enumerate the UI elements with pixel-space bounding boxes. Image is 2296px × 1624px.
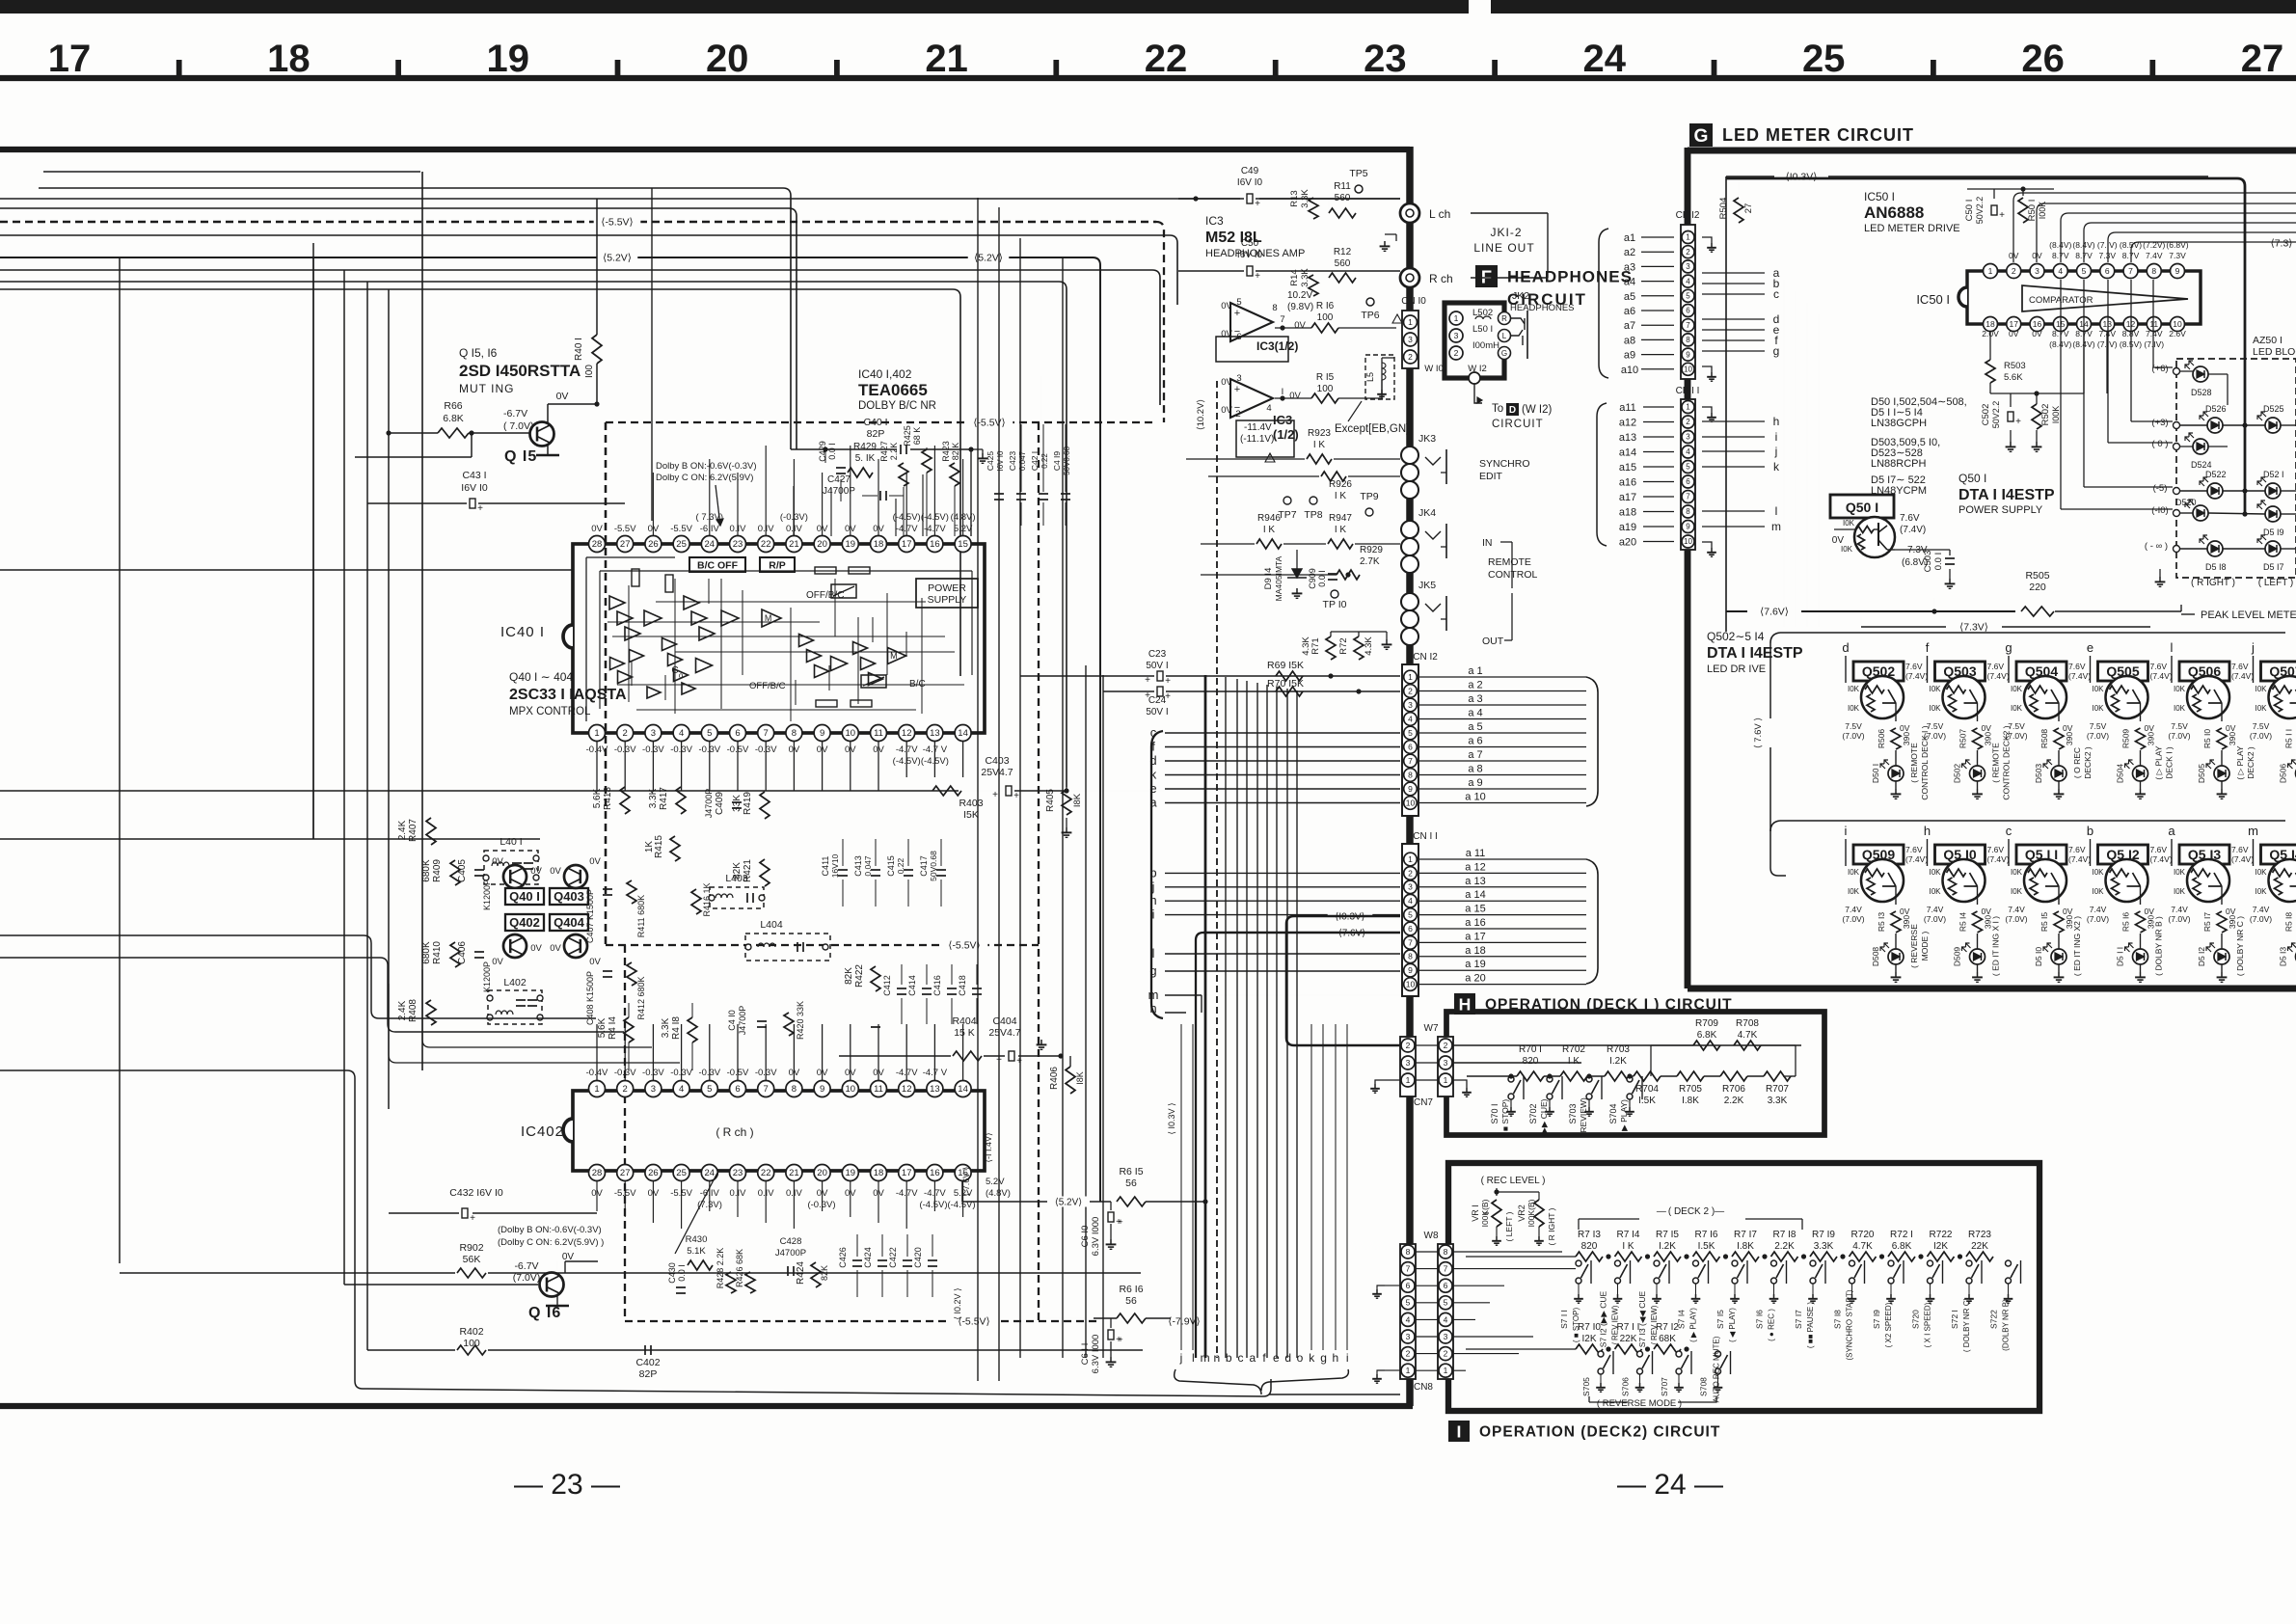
svg-text:a18: a18 (1619, 507, 1636, 519)
svg-text:I0K: I0K (2092, 685, 2104, 693)
svg-text:R7 I9: R7 I9 (1812, 1230, 1835, 1240)
svg-text:I0K: I0K (2092, 868, 2104, 877)
svg-text:0V: 0V (2145, 723, 2155, 733)
svg-text:R508: R508 (2039, 729, 2049, 749)
svg-text:Dolby B ON:-0.6V(-0.3V): Dolby B ON:-0.6V(-0.3V) (656, 461, 757, 472)
svg-text:b: b (2087, 824, 2093, 838)
svg-text:0V: 0V (1900, 907, 1910, 916)
svg-text:S7 I6: S7 I6 (1755, 1310, 1765, 1329)
svg-text:( - ∞ ): ( - ∞ ) (2145, 541, 2168, 552)
svg-text:F: F (1481, 266, 1492, 286)
svg-text:1: 1 (1406, 1366, 1411, 1375)
svg-text:R505: R505 (2025, 570, 2049, 582)
svg-text:DTA I I4ESTP: DTA I I4ESTP (1707, 645, 1803, 662)
svg-text:J4700P: J4700P (775, 1248, 806, 1259)
svg-text:5: 5 (2082, 266, 2087, 276)
svg-text:R70 I5K: R70 I5K (1267, 678, 1304, 690)
svg-text:(-I0): (-I0) (2151, 505, 2168, 516)
svg-text:2: 2 (1406, 1041, 1411, 1050)
svg-text:0V: 0V (589, 957, 601, 967)
svg-text:R708: R708 (1736, 1018, 1759, 1029)
svg-text:I0K: I0K (2174, 887, 2186, 896)
svg-text:a10: a10 (1621, 365, 1638, 376)
svg-text:7.5V: 7.5V (1927, 721, 1944, 731)
svg-text:VR I: VR I (1471, 1204, 1480, 1222)
svg-text:(7.0V): (7.0V) (513, 1272, 541, 1284)
svg-text:C422: C422 (888, 1247, 898, 1268)
svg-text:I K: I K (1335, 491, 1347, 501)
svg-text:I0K: I0K (1848, 887, 1860, 896)
svg-text:⟨-5.5V⟩: ⟨-5.5V⟩ (948, 940, 980, 952)
svg-text:I.8K: I.8K (1682, 1096, 1699, 1106)
svg-text:7.3V: 7.3V (2169, 251, 2186, 260)
svg-text:C502: C502 (1981, 404, 1991, 426)
svg-text:7: 7 (1280, 314, 1284, 325)
svg-text:⟨ I0.2V ⟩: ⟨ I0.2V ⟩ (953, 1287, 962, 1319)
svg-text:6: 6 (1686, 477, 1690, 486)
svg-text:I00: I00 (584, 365, 595, 378)
svg-text:7.4V: 7.4V (2008, 905, 2025, 914)
svg-text:S702: S702 (1528, 1103, 1538, 1123)
svg-text:Q50 I: Q50 I (1958, 472, 1986, 485)
svg-text:LED DR IVE: LED DR IVE (1707, 663, 1766, 675)
svg-text:(-0.3V): (-0.3V) (807, 1200, 835, 1210)
svg-text:0.0 I: 0.0 I (827, 443, 837, 460)
svg-text:R66: R66 (444, 400, 462, 412)
svg-text:0V: 0V (1289, 391, 1301, 401)
svg-text:0.IV: 0.IV (758, 524, 775, 534)
svg-text:SUPPLY: SUPPLY (928, 594, 967, 606)
svg-text:26: 26 (648, 539, 659, 550)
svg-text:DECK2 ): DECK2 ) (2083, 746, 2093, 779)
svg-text:R11: R11 (1334, 181, 1351, 192)
svg-text:a9: a9 (1624, 350, 1635, 362)
svg-text:L404: L404 (760, 919, 783, 931)
svg-text:1: 1 (1408, 854, 1413, 864)
svg-text:D509: D509 (1953, 947, 1962, 967)
svg-text:8: 8 (1408, 770, 1413, 779)
svg-text:2: 2 (1686, 248, 1690, 257)
svg-text:3: 3 (1444, 1058, 1448, 1068)
svg-text:6: 6 (1408, 924, 1413, 934)
svg-text:R420 33K: R420 33K (796, 1001, 805, 1040)
svg-text:R ch: R ch (1429, 272, 1453, 285)
svg-text:25: 25 (676, 539, 687, 550)
svg-text:(7.4V): (7.4V) (1987, 671, 2010, 681)
svg-text:( R ch ): ( R ch ) (716, 1125, 753, 1139)
svg-text:+: + (1999, 210, 2005, 221)
svg-text:0V: 0V (2032, 251, 2042, 260)
svg-text:56: 56 (1125, 1295, 1137, 1307)
svg-text:R5 I6: R5 I6 (2121, 912, 2131, 933)
svg-text:S7 I I: S7 I I (1559, 1310, 1569, 1329)
svg-text:3: 3 (1408, 700, 1413, 710)
svg-text:0V: 0V (530, 866, 542, 877)
svg-text:7.6V: 7.6V (2068, 662, 2086, 671)
svg-text:+: + (1013, 791, 1019, 801)
svg-text:⟨-I I.4V⟩: ⟨-I I.4V⟩ (984, 1132, 993, 1162)
svg-text:S706: S706 (1621, 1377, 1631, 1396)
svg-text:L40 I: L40 I (500, 836, 522, 848)
svg-text:D520: D520 (2175, 498, 2197, 507)
svg-text:2.4K: 2.4K (397, 1000, 408, 1020)
svg-text:I0K: I0K (2011, 868, 2023, 877)
svg-text:j: j (1179, 1351, 1183, 1365)
svg-text:82K: 82K (844, 967, 854, 985)
svg-text:a 9: a 9 (1468, 777, 1482, 789)
svg-text:D505: D505 (2197, 764, 2206, 784)
svg-text:(-5): (-5) (2153, 483, 2168, 494)
svg-text:I6V I0: I6V I0 (996, 450, 1005, 471)
svg-text:h: h (1333, 1351, 1339, 1365)
svg-text:7.6V: 7.6V (1987, 845, 2005, 854)
svg-text:g: g (1773, 344, 1780, 358)
svg-text:a6: a6 (1624, 306, 1635, 317)
svg-text:3: 3 (1236, 373, 1241, 384)
svg-text:S7 I8: S7 I8 (1833, 1310, 1843, 1329)
svg-text:R427: R427 (879, 441, 889, 462)
svg-text:R5 I7: R5 I7 (2202, 912, 2212, 933)
svg-text:2: 2 (1408, 868, 1413, 878)
svg-text:100: 100 (1317, 312, 1334, 323)
svg-text:7.5V: 7.5V (2090, 721, 2107, 731)
svg-text:I0K: I0K (2092, 704, 2104, 713)
svg-text:i: i (1346, 1351, 1349, 1365)
svg-text:R6 I6: R6 I6 (1119, 1284, 1143, 1295)
svg-text:(7.0V): (7.0V) (2250, 731, 2272, 741)
svg-text:I00K(B): I00K(B) (1526, 1199, 1536, 1227)
svg-text:I0K: I0K (2255, 685, 2267, 693)
svg-text:CN I0: CN I0 (1401, 296, 1426, 307)
svg-text:10: 10 (2173, 319, 2182, 329)
svg-text:7.6V: 7.6V (1905, 845, 1923, 854)
svg-text:a5: a5 (1624, 291, 1635, 303)
svg-text:3.3K: 3.3K (1768, 1096, 1788, 1106)
svg-text:8: 8 (1406, 1247, 1411, 1257)
svg-text:R71: R71 (1310, 637, 1321, 654)
svg-text:-11.4V: -11.4V (1244, 422, 1272, 433)
svg-text:REMOTE: REMOTE (1488, 556, 1531, 568)
svg-text:R415: R415 (654, 835, 664, 858)
svg-text:+: + (1118, 1217, 1122, 1227)
svg-text:( 7.0V): ( 7.0V) (503, 420, 534, 432)
svg-text:a 7: a 7 (1468, 749, 1482, 761)
svg-text:+: + (1234, 308, 1240, 319)
svg-text:6.3V I000: 6.3V I000 (1091, 1217, 1101, 1257)
svg-text:c: c (1773, 287, 1779, 301)
svg-text:a 13: a 13 (1465, 876, 1485, 887)
svg-text:I0K: I0K (2255, 868, 2267, 877)
svg-text:0.IV: 0.IV (786, 524, 803, 534)
svg-text:R5 I8: R5 I8 (2284, 912, 2294, 933)
svg-text:C403: C403 (985, 755, 1009, 767)
svg-text:R707: R707 (1766, 1084, 1789, 1095)
svg-text:0V: 0V (1900, 723, 1910, 733)
svg-text:8: 8 (1686, 336, 1690, 344)
svg-text:R5 I4: R5 I4 (1958, 912, 1968, 933)
svg-text:m: m (1201, 1351, 1210, 1365)
svg-text:I0K: I0K (2174, 704, 2186, 713)
svg-text:R412 680K: R412 680K (636, 976, 646, 1019)
svg-text:0.0 I: 0.0 I (1933, 553, 1944, 571)
svg-text:MA405IMTA: MA405IMTA (1274, 555, 1283, 601)
svg-text:e: e (1273, 1351, 1280, 1365)
svg-text:0V: 0V (2226, 907, 2236, 916)
svg-text:R/P: R/P (769, 560, 786, 572)
svg-text:6.8K: 6.8K (1697, 1030, 1717, 1041)
svg-text:a4: a4 (1624, 277, 1635, 288)
svg-text:CIRCUIT: CIRCUIT (1492, 419, 1544, 430)
svg-text:a11: a11 (1619, 402, 1636, 414)
svg-text:15: 15 (958, 539, 968, 550)
svg-text:a 19: a 19 (1465, 959, 1485, 970)
svg-text:1K: 1K (644, 841, 655, 853)
svg-text:R723: R723 (1968, 1230, 1991, 1240)
svg-text:( REC LEVEL ): ( REC LEVEL ) (1481, 1176, 1546, 1186)
svg-text:0V: 0V (1221, 329, 1232, 339)
svg-text:R12: R12 (1334, 247, 1352, 257)
svg-text:56K: 56K (463, 1254, 481, 1265)
svg-text:7: 7 (764, 728, 769, 739)
svg-text:50V2.2: 50V2.2 (1975, 197, 1985, 225)
svg-text:50V2.2: 50V2.2 (1991, 401, 2001, 429)
svg-text:(-4.5V): (-4.5V) (919, 1200, 947, 1210)
svg-text:0V: 0V (530, 943, 542, 954)
svg-text:3: 3 (1406, 1332, 1411, 1341)
svg-text:R720: R720 (1851, 1230, 1875, 1240)
svg-text:CN I I: CN I I (1413, 831, 1438, 842)
svg-text:LINE OUT: LINE OUT (1473, 241, 1534, 255)
svg-text:C50 I: C50 I (1964, 200, 1975, 222)
svg-text:TP6: TP6 (1361, 310, 1379, 321)
svg-text:7.6V: 7.6V (1900, 513, 1920, 524)
svg-text:390: 390 (2147, 732, 2156, 745)
svg-text:( ▶ PLAY): ( ▶ PLAY) (1619, 1099, 1629, 1136)
svg-text:I0K: I0K (2011, 685, 2023, 693)
svg-text:7: 7 (1408, 756, 1413, 766)
svg-text:4: 4 (679, 1084, 684, 1095)
svg-text:IC50 I: IC50 I (1864, 190, 1895, 203)
svg-text:R411 680K: R411 680K (636, 895, 646, 937)
svg-text:R702: R702 (1562, 1044, 1585, 1055)
svg-text:(7.0V): (7.0V) (2005, 731, 2027, 741)
svg-text:k: k (1773, 460, 1780, 474)
svg-text:D503: D503 (2034, 764, 2043, 784)
svg-text:CN I2: CN I2 (1413, 652, 1438, 663)
svg-text:( ED IT ING X I ): ( ED IT ING X I ) (1991, 916, 2001, 976)
svg-text:25V4.7: 25V4.7 (988, 1027, 1020, 1039)
svg-text:a8: a8 (1624, 335, 1635, 346)
svg-text:j: j (2251, 640, 2255, 655)
svg-text:1: 1 (1444, 1366, 1448, 1375)
svg-text:R5 I0: R5 I0 (2202, 729, 2212, 749)
svg-text:7: 7 (1444, 1263, 1448, 1273)
svg-text:26: 26 (2021, 38, 2065, 80)
svg-text:MPX CONTROL: MPX CONTROL (509, 706, 591, 717)
svg-text:I0K: I0K (2174, 868, 2186, 877)
svg-text:4: 4 (1266, 403, 1271, 414)
svg-text:C43 I: C43 I (462, 470, 486, 481)
svg-text:+: + (1016, 1056, 1022, 1067)
svg-text:820: 820 (1523, 1056, 1539, 1067)
svg-text:R430: R430 (686, 1234, 708, 1245)
svg-text:2SC33 I IAQSTA: 2SC33 I IAQSTA (509, 687, 627, 703)
svg-text:CONTROL: CONTROL (1488, 569, 1537, 581)
svg-text:I8K: I8K (1075, 1071, 1085, 1085)
svg-text:R7 I3: R7 I3 (1578, 1230, 1601, 1240)
svg-text:I2K: I2K (1581, 1334, 1596, 1344)
svg-text:S70 I: S70 I (1490, 1103, 1499, 1123)
svg-text:R947: R947 (1329, 513, 1352, 524)
svg-text:22K: 22K (1971, 1241, 1988, 1252)
svg-text:3: 3 (1686, 262, 1690, 271)
svg-text:-6.7V: -6.7V (503, 408, 527, 420)
svg-text:AUTO REC MUTE): AUTO REC MUTE) (1713, 1336, 1721, 1402)
svg-text:4.3K: 4.3K (1301, 636, 1311, 656)
svg-text:(7.0V): (7.0V) (1842, 731, 1864, 741)
svg-text:8: 8 (1408, 952, 1413, 961)
svg-text:R72 I: R72 I (1890, 1230, 1913, 1240)
svg-text:I: I (1282, 387, 1284, 397)
svg-text:C424: C424 (863, 1247, 873, 1268)
svg-text:2: 2 (623, 728, 628, 739)
svg-text:R703: R703 (1607, 1044, 1630, 1055)
svg-text:7.6V: 7.6V (2231, 662, 2249, 671)
svg-text:15 K: 15 K (954, 1027, 975, 1039)
svg-text:(7.4V): (7.4V) (2231, 671, 2254, 681)
svg-text:a2: a2 (1624, 247, 1635, 258)
svg-text:18: 18 (874, 1168, 884, 1178)
svg-text:9: 9 (1686, 350, 1690, 359)
svg-text:4: 4 (1444, 1314, 1448, 1324)
svg-text:a: a (1249, 1351, 1256, 1365)
svg-text:5: 5 (707, 728, 712, 739)
svg-text:S72 I: S72 I (1950, 1310, 1959, 1329)
svg-text:a 16: a 16 (1465, 917, 1485, 929)
svg-text:D524: D524 (2191, 460, 2212, 470)
svg-text:6: 6 (1686, 307, 1690, 315)
svg-text:7: 7 (764, 1084, 769, 1095)
svg-text:D52 I: D52 I (2263, 470, 2284, 479)
svg-text:C428: C428 (780, 1236, 802, 1247)
svg-text:C4 I0: C4 I0 (727, 1010, 737, 1031)
svg-text:3: 3 (651, 1084, 656, 1095)
svg-text:C407 K1500P: C407 K1500P (585, 889, 595, 943)
svg-text:I.2K: I.2K (1659, 1241, 1676, 1252)
svg-text:a16: a16 (1619, 477, 1636, 489)
svg-text:10: 10 (846, 1084, 856, 1095)
svg-text:a17: a17 (1619, 492, 1636, 503)
svg-text:(▶▶ CUE): (▶▶ CUE) (1539, 1098, 1549, 1136)
svg-text:R426 68K: R426 68K (735, 1249, 744, 1287)
svg-text:R50 I: R50 I (2027, 200, 2038, 222)
svg-text:2.6V: 2.6V (2169, 329, 2186, 338)
svg-text:26: 26 (648, 1168, 659, 1178)
svg-text:S7 I5: S7 I5 (1715, 1310, 1725, 1329)
svg-text:I.5K: I.5K (1698, 1241, 1715, 1252)
svg-text:( DOLBY NR C): ( DOLBY NR C) (1962, 1298, 1971, 1353)
svg-text:18: 18 (1985, 319, 1995, 329)
svg-text:W7: W7 (1424, 1023, 1439, 1034)
svg-text:6.8K: 6.8K (443, 413, 464, 424)
svg-text:L50 I: L50 I (1472, 324, 1493, 335)
svg-text:Dolby C ON: 6.2V(5.9V): Dolby C ON: 6.2V(5.9V) (656, 473, 753, 483)
svg-text:LED METER CIRCUIT: LED METER CIRCUIT (1722, 125, 1914, 145)
svg-text:16: 16 (930, 539, 940, 550)
svg-text:18: 18 (267, 38, 311, 80)
svg-text:⟨7.3⟩: ⟨7.3⟩ (2271, 238, 2293, 250)
svg-text:19: 19 (846, 539, 856, 550)
svg-text:-4.7V: -4.7V (924, 524, 946, 534)
svg-text:C425: C425 (986, 451, 995, 472)
svg-text:2.2K: 2.2K (1774, 1241, 1795, 1252)
svg-text:7.5V: 7.5V (2008, 721, 2025, 731)
svg-text:R423: R423 (941, 441, 951, 462)
svg-text:21: 21 (789, 1168, 799, 1178)
svg-text:I8K: I8K (1072, 793, 1083, 807)
svg-text:D528: D528 (2191, 388, 2212, 397)
svg-text:11: 11 (2149, 319, 2158, 329)
svg-text:(7.0V): (7.0V) (1924, 731, 1946, 741)
svg-text:0V: 0V (556, 391, 569, 402)
svg-text:To: To (1492, 403, 1503, 415)
svg-text:(7.4V): (7.4V) (1987, 854, 2010, 864)
svg-text:R5 I I: R5 I I (2284, 729, 2294, 748)
svg-text:D50 I: D50 I (1871, 764, 1880, 783)
svg-text:0V: 0V (2145, 907, 2155, 916)
svg-text:I6V I0: I6V I0 (1237, 250, 1263, 260)
svg-text:CP I I: CP I I (1676, 386, 1700, 396)
svg-text:D5 I9: D5 I9 (2263, 528, 2284, 537)
svg-text:L: L (1502, 332, 1507, 340)
svg-text:(+3): (+3) (2151, 418, 2168, 428)
svg-text:390: 390 (2065, 732, 2074, 745)
svg-text:D5 I8: D5 I8 (2205, 562, 2227, 572)
svg-text:JK4: JK4 (1418, 507, 1436, 519)
svg-text:d: d (1842, 640, 1849, 655)
svg-text:3.3K: 3.3K (1814, 1241, 1834, 1252)
svg-text:C50: C50 (1241, 238, 1259, 249)
svg-text:3: 3 (1454, 331, 1459, 340)
svg-text:S705: S705 (1581, 1377, 1591, 1396)
svg-text:12: 12 (902, 728, 912, 739)
svg-text:I.2K: I.2K (1609, 1056, 1627, 1067)
svg-text:C503: C503 (1923, 551, 1933, 573)
svg-text:7.5V: 7.5V (1845, 721, 1862, 731)
svg-text:(4.8V): (4.8V) (986, 1188, 1011, 1199)
svg-text:I0K: I0K (1929, 685, 1941, 693)
svg-text:+: + (1165, 691, 1171, 702)
svg-text:DOLBY B/C NR: DOLBY B/C NR (858, 400, 936, 412)
svg-text:R5 I5: R5 I5 (2039, 912, 2049, 933)
svg-text:100: 100 (1317, 384, 1334, 394)
svg-text:7.4V: 7.4V (2171, 905, 2188, 914)
svg-text:22: 22 (761, 539, 771, 550)
svg-text:7.6V: 7.6V (1905, 662, 1923, 671)
svg-text:I K: I K (1313, 440, 1326, 450)
svg-text:(-0.3V): (-0.3V) (780, 512, 808, 523)
svg-text:S7 I7: S7 I7 (1794, 1310, 1803, 1329)
svg-text:21: 21 (789, 539, 799, 550)
svg-text:R7 I0: R7 I0 (1578, 1322, 1601, 1333)
svg-text:820: 820 (1581, 1241, 1598, 1252)
svg-text:1: 1 (1408, 317, 1413, 327)
svg-text:h: h (1924, 824, 1931, 838)
svg-text:82P: 82P (867, 428, 885, 440)
svg-text:19: 19 (846, 1168, 856, 1178)
svg-text:I6V I0: I6V I0 (1237, 177, 1263, 188)
svg-text:AN6888: AN6888 (1864, 203, 1924, 222)
